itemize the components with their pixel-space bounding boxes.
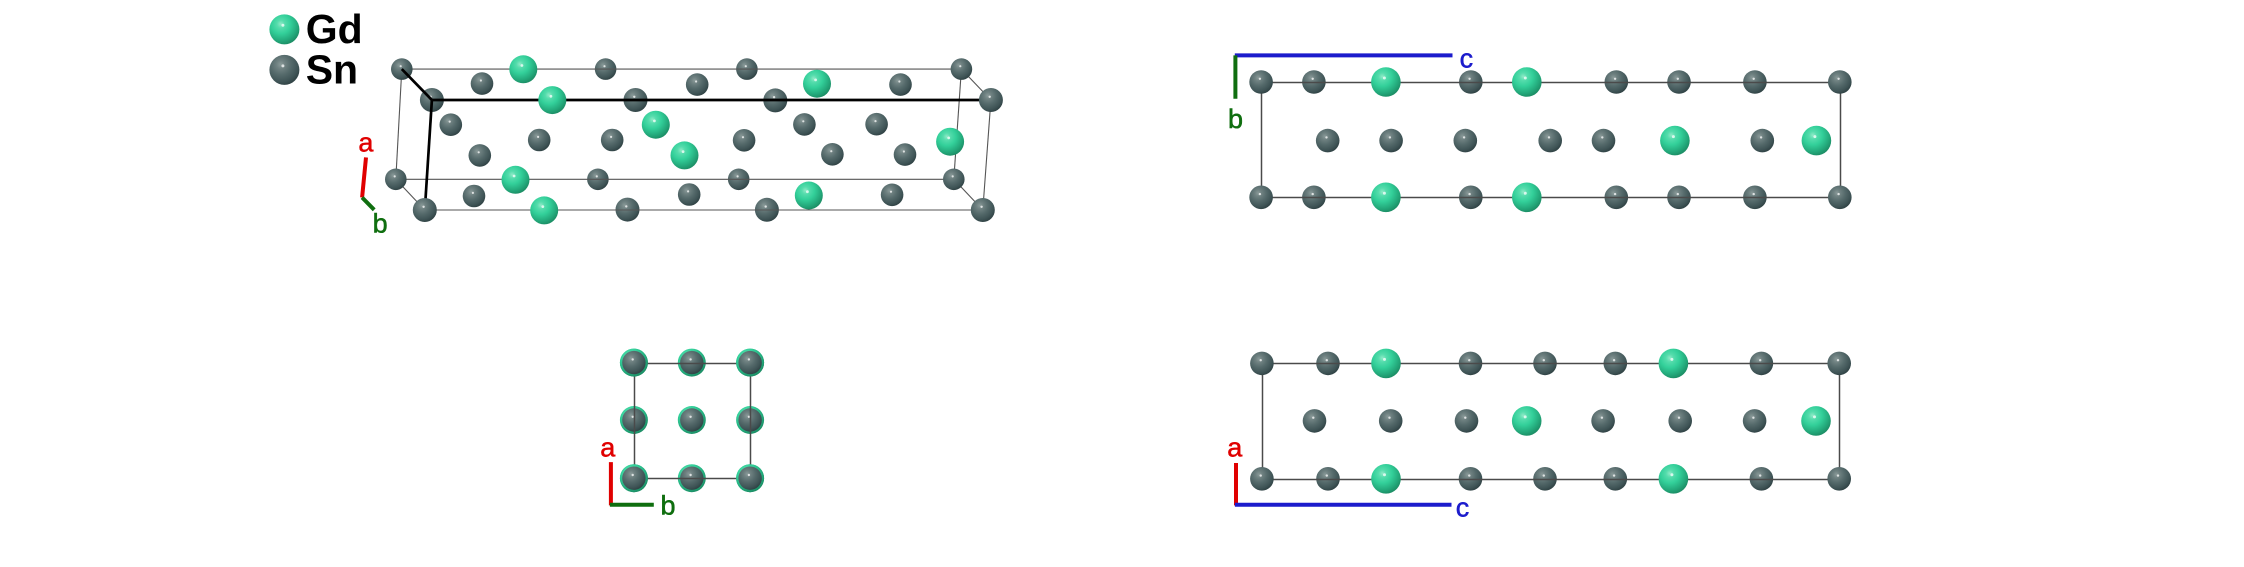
Sn atom (top row) xyxy=(1750,352,1774,376)
cell edge left xyxy=(1261,82,1263,197)
Gd atom (top row) xyxy=(1371,349,1401,379)
Sn atom (middle layer) xyxy=(471,72,494,95)
axis a line (red) xyxy=(609,462,613,505)
Sn atom (middle row) xyxy=(1454,129,1478,153)
Sn atom (back-bottom-left corner) xyxy=(385,169,407,191)
Sn atom (top row) xyxy=(1604,352,1628,376)
Sn atom (back-top-left corner) xyxy=(391,58,413,80)
svg-text:b: b xyxy=(373,209,388,239)
Sn atom xyxy=(622,408,645,431)
cell edge back-left xyxy=(396,69,402,179)
panel 3 : projection along c (a-b plane), Gd behind Sn xyxy=(600,349,764,521)
Sn atom (middle row) xyxy=(1743,409,1767,433)
cell vector b (black) xyxy=(402,69,432,100)
Sn atom (front layer) xyxy=(616,198,640,222)
Sn atom (bottom row) xyxy=(1459,467,1483,491)
Sn atom (back-top-right corner) xyxy=(951,58,973,80)
Sn atom (middle layer) xyxy=(463,185,486,208)
Gd atom (top row) xyxy=(1659,349,1689,379)
cell edge back-bottom xyxy=(396,178,954,180)
Sn atom xyxy=(680,408,703,431)
Gd atom (top row) xyxy=(1371,67,1401,97)
Sn atom (back layer) xyxy=(587,169,609,191)
Sn atom (bottom row) xyxy=(1605,186,1629,210)
Gd atom (behind Sn) xyxy=(678,464,706,492)
Sn atom (middle row) xyxy=(1379,129,1403,153)
Sn atom (cell corner) xyxy=(1827,352,1851,376)
Sn atom (bottom row) xyxy=(1750,467,1774,491)
svg-text:a: a xyxy=(600,433,616,463)
Gd atom (bottom row) xyxy=(1371,464,1401,494)
Gd atom (corner, behind Sn) xyxy=(736,349,764,377)
Sn atom (middle row) xyxy=(1303,409,1327,433)
Sn atom (bottom row) xyxy=(1743,186,1767,210)
Gd atom (behind Sn) xyxy=(678,406,706,434)
Sn atom (cell corner) xyxy=(1249,70,1273,94)
Sn atom (middle row) xyxy=(1751,129,1775,153)
Gd atom (middle row) xyxy=(1512,406,1542,436)
Sn atom (bottom row) xyxy=(1667,186,1691,210)
Sn atom (middle row) xyxy=(1316,129,1340,153)
cell edge right xyxy=(1839,363,1841,478)
Sn atom (middle layer) xyxy=(601,129,624,152)
Sn atom (middle layer) xyxy=(469,144,492,167)
Sn atom (corner) xyxy=(622,351,645,374)
Gd atom (corner, behind Sn) xyxy=(620,464,648,492)
svg-text:Gd: Gd xyxy=(306,6,363,52)
cell edge right xyxy=(750,363,752,479)
Sn atom (corner) xyxy=(738,467,761,490)
Sn atom (corner) xyxy=(622,467,645,490)
Gd atom xyxy=(936,128,964,156)
Sn atom (cell corner) xyxy=(1250,467,1274,491)
cell vector a (black) xyxy=(425,100,432,210)
cell edge top xyxy=(1261,82,1840,84)
axis c line (blue) xyxy=(1235,53,1453,57)
Sn atom (bottom row) xyxy=(1459,186,1483,210)
Sn atom (back layer) xyxy=(595,58,617,80)
Sn atom (top row) xyxy=(1459,352,1483,376)
Sn atom (cell corner) xyxy=(1828,186,1852,210)
cell edge left xyxy=(1262,363,1264,478)
Sn atom (middle row) xyxy=(1379,409,1403,433)
svg-text:c: c xyxy=(1460,43,1474,73)
Sn atom xyxy=(622,467,645,490)
cell edge bottom-right diagonal xyxy=(954,179,983,210)
Sn atom (cell corner) xyxy=(1828,70,1852,94)
axis b line (green) xyxy=(1233,55,1237,98)
Sn atom (top row) xyxy=(1302,70,1326,94)
Sn atom (front layer) xyxy=(763,88,787,112)
Sn atom (top row) xyxy=(1605,70,1629,94)
Gd atom xyxy=(509,55,537,83)
Sn atom (cell corner) xyxy=(1250,352,1274,376)
Sn atom (bottom row) xyxy=(1604,467,1628,491)
Gd atom (behind Sn) xyxy=(620,349,648,377)
Sn atom (front layer) xyxy=(755,198,779,222)
Sn atom (middle row) xyxy=(1455,409,1479,433)
Sn atom (front-top-right corner) xyxy=(979,88,1003,112)
cell edge top xyxy=(634,363,750,365)
Sn atom (bottom row) xyxy=(1316,467,1340,491)
Sn atom (bottom row) xyxy=(1533,467,1557,491)
Gd atom xyxy=(803,70,831,98)
Gd atom xyxy=(671,141,699,169)
Gd atom (behind Sn) xyxy=(736,464,764,492)
Sn atom xyxy=(738,408,761,431)
svg-text:c: c xyxy=(1456,493,1470,523)
Sn atom (cell corner) xyxy=(1249,186,1273,210)
axis b line (green) xyxy=(610,503,654,507)
Sn atom xyxy=(680,351,703,374)
cell edge front-right xyxy=(983,100,991,210)
Gd atom (top row) xyxy=(1512,67,1542,97)
Sn atom (bottom row) xyxy=(1302,186,1326,210)
Sn atom (top row) xyxy=(1316,352,1340,376)
Sn atom xyxy=(622,351,645,374)
Sn atom (middle row) xyxy=(1538,129,1562,153)
Gd atom xyxy=(642,111,670,139)
svg-text:a: a xyxy=(1227,433,1243,463)
Sn atom (middle layer) xyxy=(889,73,912,96)
svg-text:b: b xyxy=(660,491,675,521)
Sn atom (middle row) xyxy=(1591,409,1615,433)
Gd atom (behind Sn) xyxy=(678,349,706,377)
cell edge bottom-left diagonal xyxy=(396,179,425,210)
Gd atom (bottom row) xyxy=(1659,464,1689,494)
Sn atom (back layer) xyxy=(728,169,750,191)
Sn atom (top row) xyxy=(1743,70,1767,94)
axis a line (red) xyxy=(1234,463,1238,505)
Sn atom (front layer) xyxy=(624,88,648,112)
cell vector c (black) xyxy=(432,99,991,102)
cell edge front-bottom xyxy=(425,209,983,211)
Sn atom (top row) xyxy=(1533,352,1557,376)
Sn atom (middle layer) xyxy=(865,113,888,136)
Sn atom xyxy=(680,467,703,490)
panel 2 : projection along a (b-c plane) xyxy=(1228,43,1852,212)
Gd atom (bottom row) xyxy=(1512,183,1542,213)
Sn atom (middle row) xyxy=(1592,129,1616,153)
axis c line (blue) xyxy=(1235,503,1452,507)
cell edge left xyxy=(634,363,636,479)
panel 1 : 3D perspective view of GdSn unit cell xyxy=(358,55,1003,238)
Sn atom (front-bottom-left corner) xyxy=(413,198,437,222)
svg-text:Sn: Sn xyxy=(306,47,358,93)
Sn atom (middle row) xyxy=(1668,409,1692,433)
Gd atom (behind Sn) xyxy=(736,406,764,434)
Sn atom (back layer) xyxy=(736,58,758,80)
axis a line (red) xyxy=(362,157,366,197)
Gd atom (middle row) xyxy=(1801,406,1831,436)
Sn atom (middle layer) xyxy=(881,184,904,207)
Sn atom (front-bottom-right corner) xyxy=(971,198,995,222)
Sn atom (middle layer) xyxy=(733,129,756,152)
cell edge right xyxy=(1840,82,1842,197)
cell edge back-right xyxy=(954,69,962,179)
axis b line (green) xyxy=(362,198,374,210)
cell edge bottom xyxy=(634,478,750,480)
Sn atom (cell corner) xyxy=(1827,467,1851,491)
Sn atom (back-bottom-right corner) xyxy=(943,169,965,191)
Gd atom (middle row) xyxy=(1660,126,1690,156)
Gd atom (corner, behind Sn) xyxy=(620,349,648,377)
Gd atom xyxy=(538,86,566,114)
Gd atom (behind Sn) xyxy=(620,464,648,492)
Sn atom xyxy=(738,467,761,490)
Sn atom xyxy=(738,351,761,374)
Gd atom (corner, behind Sn) xyxy=(736,464,764,492)
Gd atom (bottom row) xyxy=(1371,183,1401,213)
Gd atom xyxy=(795,182,823,210)
Sn atom (middle layer) xyxy=(821,143,844,166)
cell edge bottom xyxy=(1261,197,1840,199)
Sn atom (front-top-left corner) xyxy=(420,88,444,112)
Sn atom (top row) xyxy=(1667,70,1691,94)
panel 4 : projection along b (a-c plane) xyxy=(1227,349,1851,523)
Sn atom (middle layer) xyxy=(678,183,701,206)
Sn atom (middle layer) xyxy=(528,129,551,152)
Gd atom xyxy=(530,196,558,224)
svg-text:b: b xyxy=(1228,104,1243,134)
svg-text:a: a xyxy=(358,128,374,158)
Gd atom xyxy=(502,166,530,194)
cell edge back-top xyxy=(402,68,962,70)
Gd atom (behind Sn) xyxy=(620,406,648,434)
Sn atom (middle layer) xyxy=(894,143,917,166)
cell edge top xyxy=(1262,363,1839,365)
Sn atom (middle layer) xyxy=(793,113,816,136)
cell edge bottom xyxy=(1262,479,1839,481)
cell edge top-right diagonal xyxy=(961,69,991,100)
Gd atom (middle row) xyxy=(1802,126,1832,156)
Gd atom (behind Sn) xyxy=(736,349,764,377)
Sn atom (corner) xyxy=(738,351,761,374)
legend Sn sphere xyxy=(269,55,299,85)
legend Gd sphere xyxy=(269,14,299,44)
Sn atom (middle layer) xyxy=(686,73,709,96)
Sn atom (middle layer) xyxy=(440,113,463,136)
Sn atom (top row) xyxy=(1459,70,1483,94)
